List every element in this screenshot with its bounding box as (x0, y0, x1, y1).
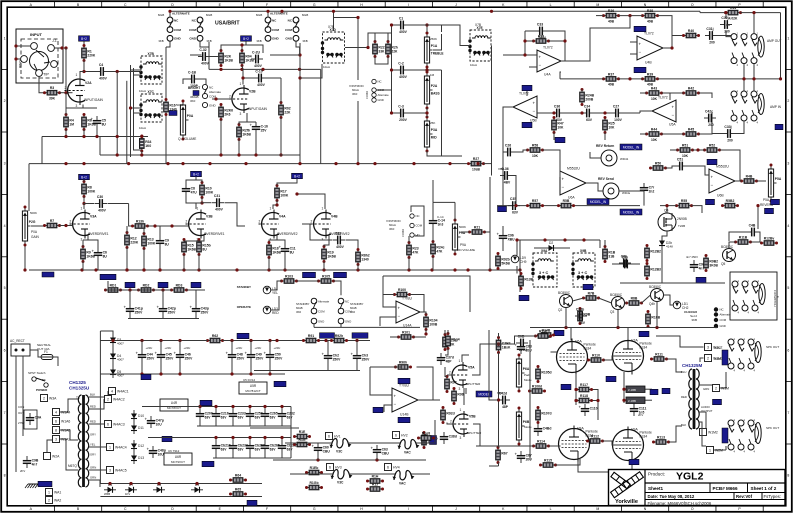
pentode V8A (559, 426, 598, 463)
vintmod2 pin (410, 214, 414, 218)
wire fb u14 top (383, 276, 470, 312)
svg-text:Q4: Q4 (664, 209, 669, 213)
svg-text:Mode: Mode (524, 378, 532, 382)
power switch (32, 377, 48, 387)
vintmod pin wire (376, 89, 392, 91)
junction (724, 11, 727, 14)
wire grid v2b (212, 98, 229, 100)
svg-text:W1M2: W1M2 (708, 431, 718, 435)
svg-text:R100: R100 (398, 288, 406, 292)
net label B+2 (79, 174, 90, 180)
wire plate wire (84, 61, 96, 72)
capacitor C8 (182, 184, 197, 196)
junction (552, 111, 555, 114)
svg-text:R114: R114 (537, 439, 545, 443)
connector W1A6 (53, 418, 71, 425)
svg-text:10U: 10U (156, 422, 163, 426)
net label mos4 (639, 331, 649, 337)
net label sb2 (334, 272, 347, 278)
svg-text:2: 2 (715, 387, 717, 391)
connector HV1 (326, 433, 341, 440)
wire res lk (297, 280, 319, 282)
junction (425, 23, 428, 26)
svg-text:+: + (533, 101, 536, 106)
resistor R1 (82, 44, 96, 62)
svg-text:10K: 10K (651, 97, 658, 101)
resistor R39 (641, 72, 659, 86)
wire c9 up (159, 226, 161, 236)
junction (523, 39, 526, 42)
triode V4A (259, 207, 287, 242)
net label gnd1 (42, 272, 54, 277)
vintmod pin (372, 79, 376, 83)
capacitor C33j (723, 125, 735, 143)
svg-text:8U: 8U (102, 122, 107, 126)
vintmod pin (372, 98, 376, 102)
junction (283, 268, 286, 271)
svg-text:1: 1 (4, 37, 6, 41)
resistor R103 (280, 274, 298, 283)
svg-text:R101: R101 (402, 330, 410, 334)
svg-text:8U: 8U (202, 247, 207, 251)
resistor R62 (206, 334, 224, 343)
junction (424, 332, 427, 335)
triode V3A (70, 207, 98, 242)
resistor R43 (645, 86, 663, 100)
svg-text:1: 1 (76, 73, 78, 77)
capacitor C96 (497, 231, 516, 243)
wire u5a top in (669, 93, 671, 100)
resistor R04 (240, 49, 255, 67)
junction (407, 268, 410, 271)
resistor R2K (219, 49, 234, 67)
wire capA233 up (232, 407, 234, 410)
wire cap254 dn (250, 362, 252, 371)
net label bd1 (125, 282, 135, 288)
resistor R2K6 (219, 103, 234, 121)
svg-text:+: + (279, 245, 282, 250)
svg-text:1: 1 (460, 408, 462, 412)
svg-text:400V: 400V (254, 64, 263, 68)
wire c8b vert (757, 206, 759, 229)
capacitor Cb216 (212, 441, 231, 453)
svg-text:Filename: M666V0fSCH.sch2006: Filename: M666V0fSCH.sch2006 (648, 501, 712, 506)
wire xfb left2 (134, 68, 142, 150)
wire capA233 dn (232, 421, 234, 426)
wire pa bot wire2 (489, 465, 499, 467)
wire c9 dn (159, 248, 161, 270)
svg-text:R12Bv: R12Bv (764, 236, 775, 240)
wire bass bot (426, 108, 428, 113)
svg-text:OVERDRIVE1: OVERDRIVE1 (88, 232, 109, 236)
wire v7a cath dn (623, 372, 625, 403)
svg-text:4n7: 4n7 (32, 462, 38, 466)
wire u14b fb (370, 367, 392, 395)
junction (142, 268, 145, 271)
junction (129, 106, 132, 109)
wire vac wire1c (416, 420, 435, 443)
connector W4AC5 (107, 467, 127, 474)
svg-text:33K: 33K (378, 49, 385, 53)
wire xfe top (442, 25, 471, 46)
svg-text:250V: 250V (168, 310, 177, 314)
connector W1A8 (53, 427, 71, 434)
svg-text:BC850C: BC850C (649, 285, 662, 289)
capacitor C111 (630, 404, 647, 416)
wire cath split (66, 107, 97, 109)
net label bd2 (158, 282, 168, 288)
connector W4AC1 (109, 388, 129, 395)
wire vert 300 (299, 43, 301, 164)
wire r19 dn (323, 262, 325, 271)
svg-text:W2A: W2A (52, 455, 60, 459)
junction (235, 268, 238, 271)
svg-text:P6A: P6A (523, 367, 530, 371)
resistor R45 (682, 127, 700, 136)
resistor R1G (293, 438, 311, 447)
svg-text:R117: R117 (580, 383, 588, 387)
svg-text:GND: GND (378, 98, 384, 102)
svg-text:P5A: P5A (763, 198, 770, 202)
wire xfb right1 (165, 47, 167, 100)
svg-text:3K0: 3K0 (296, 310, 302, 314)
junction (140, 153, 143, 156)
jack J1 contact (31, 43, 38, 50)
wire c33 rk (735, 121, 744, 134)
svg-text:C1: C1 (399, 16, 403, 20)
svg-text:4007: 4007 (117, 342, 124, 346)
Yorkville logo (611, 472, 644, 498)
svg-text:100V: 100V (614, 118, 623, 122)
standby relay 341 (338, 298, 352, 324)
wire bus 406 (148, 406, 291, 408)
svg-text:48P: 48P (446, 359, 453, 363)
wire C46 up (179, 341, 181, 351)
junction (514, 204, 517, 207)
wire c60 dn (317, 455, 319, 460)
wire Ch2 up (327, 341, 329, 352)
svg-text:+: + (312, 444, 315, 449)
wire r118 r (592, 400, 599, 402)
svg-text:R1G: R1G (299, 438, 306, 442)
resistor R111 (650, 352, 668, 361)
svg-text:V5B: V5B (469, 415, 476, 419)
svg-text:63V: 63V (205, 415, 212, 419)
wire vert 320 (320, 69, 322, 163)
resistor R11B (734, 235, 752, 244)
wire C48 up (231, 341, 233, 351)
junction (64, 224, 67, 227)
wire zobel r1 (645, 388, 652, 390)
junction (140, 135, 143, 138)
wire v2b plate (242, 66, 243, 85)
svg-text:GND: GND (720, 324, 726, 328)
svg-text:ALTERNATE: ALTERNATE (270, 12, 288, 16)
wire r22 r2h top (375, 33, 388, 42)
wire v3a cath (83, 236, 88, 241)
svg-text:CH1325M: CH1325M (682, 363, 703, 368)
capacitor C35 (508, 197, 520, 215)
wire v5a plate (462, 355, 469, 362)
wire grid1 (60, 225, 73, 227)
svg-text:220K: 220K (130, 240, 139, 244)
wire input tip (54, 47, 66, 49)
wire R6 bot (83, 130, 85, 137)
relay X7D (321, 28, 345, 63)
net label B+2 (241, 36, 252, 42)
svg-text:3KB: 3KB (691, 318, 697, 322)
junction (82, 135, 85, 138)
wire y80 drop (560, 72, 561, 79)
capacitor C27 (611, 104, 623, 122)
svg-text:1: 1 (109, 446, 111, 450)
junction (108, 482, 111, 485)
svg-text:POWER: POWER (36, 388, 48, 392)
twisted pair VL4 (393, 470, 415, 485)
svg-text:6: 6 (55, 420, 57, 424)
svg-text:−: − (562, 185, 565, 190)
junction (125, 268, 128, 271)
resistor R21 (468, 225, 486, 234)
wire tone out (433, 34, 442, 50)
wire led ch6 up (516, 240, 518, 255)
wire ld1 lk (664, 295, 674, 305)
capacitor C216 (212, 409, 229, 421)
wire r8h2 dn (357, 265, 359, 271)
svg-text:W4AC3: W4AC3 (113, 423, 125, 427)
svg-text:10U: 10U (158, 452, 165, 456)
wire jack j8 lk (725, 446, 727, 450)
wire w3 wires (656, 336, 704, 347)
svg-text:6BP: 6BP (497, 391, 502, 395)
wire d2 wire2 (557, 247, 570, 249)
wire v4b plate up (297, 194, 325, 209)
net label pi2 (373, 407, 383, 413)
wire C48 dn (231, 362, 233, 374)
svg-text:B+2: B+2 (243, 37, 249, 41)
svg-text:R67: R67 (501, 452, 507, 456)
svg-text:Date: Tue May 08, 2012: Date: Tue May 08, 2012 (648, 494, 695, 499)
svg-text:47U: 47U (191, 190, 198, 194)
wire r02 dn (280, 118, 282, 156)
svg-text:100B: 100B (429, 322, 438, 326)
standby relay 314 (311, 298, 329, 324)
wire v4a grid in (237, 225, 245, 227)
wire t2 sec1 (699, 384, 712, 386)
svg-text:B+2: B+2 (294, 174, 300, 178)
wire c1 to tone (408, 25, 442, 32)
wire C5 bot (96, 128, 98, 137)
capacitor C26 (503, 143, 515, 156)
wire odvol feed (433, 201, 455, 203)
svg-text:250V: 250V (201, 310, 210, 314)
resistor R16 (164, 98, 177, 116)
wire relay1 down (166, 41, 170, 47)
svg-text:R116: R116 (539, 329, 547, 333)
triode V2B (229, 82, 256, 116)
svg-text:L: L (550, 507, 552, 511)
svg-text:RD1: RD1 (110, 283, 117, 287)
relay contact col 268 (256, 13, 280, 43)
svg-text:EL84: EL84 (640, 435, 648, 439)
svg-text:RED: RED (272, 311, 279, 315)
resistor R102 (443, 333, 457, 351)
junction (476, 162, 479, 165)
wire v7a up (627, 328, 629, 340)
transistor Q5 (721, 245, 736, 266)
relay contact col 296 (285, 13, 308, 43)
junction (563, 39, 566, 42)
jack J1 contact (48, 45, 55, 52)
svg-text:Rev:V0f: Rev:V0f (736, 494, 753, 499)
svg-text:100K: 100K (205, 190, 214, 194)
capacitor C41p (124, 304, 144, 316)
svg-text:8U: 8U (103, 254, 108, 258)
svg-text:500K: 500K (30, 211, 37, 215)
svg-text:3KB: 3KB (158, 39, 163, 43)
wire led wiring2 (271, 296, 279, 310)
resistor R9B2 (704, 254, 719, 272)
svg-text:TL072: TL072 (543, 46, 553, 50)
wire t1 sec3 (89, 423, 104, 425)
wire rev send link (619, 190, 644, 192)
wire gnd 458 (213, 457, 291, 459)
pentode V9A (613, 427, 652, 464)
svg-text:3K0: 3K0 (190, 99, 196, 103)
svg-text:−: − (394, 402, 397, 407)
svg-text:2KV: 2KV (20, 469, 25, 473)
wire capB216 up (215, 438, 217, 442)
svg-text:R105d: R105d (541, 371, 551, 375)
svg-text:5K6B: 5K6B (501, 261, 510, 265)
junction (574, 399, 577, 402)
resistor R2f6 (237, 123, 252, 141)
svg-text:+: + (174, 351, 177, 356)
wire gnd 370h (254, 370, 360, 372)
capacitor C4B (747, 223, 759, 236)
svg-text:100K: 100K (87, 189, 96, 193)
wire relay vert r (599, 240, 601, 248)
wire pin drop (126, 81, 128, 164)
wire main bus B+ (29, 163, 469, 165)
svg-text:Mode: Mode (524, 425, 532, 429)
wire C49 up (250, 341, 252, 351)
wire C49 dn (250, 362, 252, 374)
svg-text:R50: R50 (655, 161, 661, 165)
svg-text:J-1: J-1 (52, 39, 57, 43)
svg-text:+: + (124, 305, 127, 310)
svg-text:F: F (266, 507, 268, 511)
wire vac wire1b (348, 442, 400, 444)
svg-text:RED: RED (90, 405, 96, 409)
junction (261, 68, 264, 71)
wire fuse lk (30, 350, 41, 357)
svg-text:MID: MID (431, 136, 438, 140)
svg-text:+: + (155, 351, 158, 356)
wire Ch3 up (356, 341, 358, 352)
wire to ampout (717, 36, 731, 37)
junction (230, 372, 233, 375)
capacitor C282 (278, 409, 295, 421)
resistor R13B (519, 272, 534, 290)
svg-text:2: 2 (107, 398, 109, 402)
wire capB233 dn (232, 453, 234, 458)
resistor C2R4 (496, 336, 511, 354)
resistor R118 (575, 394, 593, 403)
junction (64, 46, 67, 49)
wire main bus B+ b (484, 163, 493, 165)
resistor R41 (724, 6, 742, 20)
svg-text:R1E: R1E (299, 430, 306, 434)
svg-text:C35: C35 (510, 197, 516, 201)
svg-text:BLK: BLK (681, 423, 686, 427)
capacitor C0B (516, 334, 528, 352)
potentiometer P1A (424, 32, 443, 69)
svg-text:P6B: P6B (523, 420, 530, 424)
net label u4rb (200, 400, 212, 406)
potentiometer P2A (424, 71, 439, 110)
svg-text:C31j: C31j (706, 27, 713, 31)
wire r36 link (619, 15, 643, 17)
junction (23, 268, 26, 271)
capacitor C63 (371, 445, 390, 457)
svg-text:OVERDRIVE1: OVERDRIVE1 (204, 232, 225, 236)
wire od1 plate2 (83, 197, 85, 210)
regulator U5R (239, 382, 267, 394)
net label fxr (775, 124, 783, 130)
resistor R7 (43, 219, 61, 228)
svg-text:4: 4 (4, 224, 6, 228)
wire fuse lk2 (53, 357, 58, 366)
wire vert 492 (491, 46, 493, 176)
wire vert 780 (780, 13, 782, 79)
junction (240, 68, 243, 71)
svg-text:4.02K: 4.02K (729, 16, 738, 20)
wire c111 up (633, 403, 635, 404)
wire r23 up (408, 236, 410, 243)
svg-text:HV3: HV3 (335, 466, 342, 470)
svg-text:V8A: V8A (577, 427, 584, 431)
wire h rail 428 (250, 427, 299, 429)
capacitor C33 (535, 22, 547, 40)
svg-text:R12B3: R12B3 (650, 268, 661, 272)
wire y150 link (693, 149, 705, 151)
jack J1 contact (36, 70, 43, 77)
wire vert100 (99, 137, 101, 156)
wire relay2 top (267, 11, 269, 17)
resistor R105d (536, 365, 552, 383)
jack J1 barrel (30, 52, 49, 71)
svg-text:4: 4 (111, 390, 113, 394)
wire tone vert out (441, 70, 443, 156)
diode D5 (110, 366, 124, 378)
wire vac wire2c (411, 473, 430, 475)
svg-text:R13h: R13h (136, 219, 144, 223)
wire v6a cath dn (575, 374, 577, 405)
wire pot9 top (454, 202, 456, 220)
wire gnd 426 (197, 425, 291, 427)
wire xfb conn1b (134, 74, 142, 76)
junction (200, 201, 203, 204)
svg-text:−: − (398, 314, 401, 319)
resistor R5B2 (721, 199, 739, 208)
capacitor C42d (498, 391, 510, 409)
svg-text:MC79XCT: MC79XCT (171, 460, 185, 464)
wire fb r2 (549, 40, 566, 42)
resistor R42 (682, 86, 700, 95)
junction (268, 339, 271, 342)
svg-text:U4B: U4B (645, 61, 652, 65)
